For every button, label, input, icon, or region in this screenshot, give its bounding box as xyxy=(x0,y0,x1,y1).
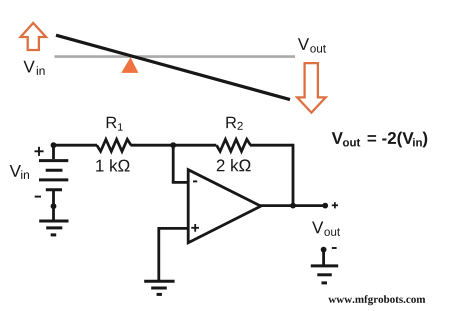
node: output/feedback junction xyxy=(290,203,296,209)
ground (battery) xyxy=(39,220,68,223)
wire: battery + to R1 xyxy=(54,144,98,147)
label R2 xyxy=(226,117,236,128)
resistor R1 xyxy=(97,139,131,151)
battery + sign xyxy=(35,150,44,152)
resistor R2 xyxy=(217,139,251,151)
node: output terminal xyxy=(322,203,328,209)
seesaw base line xyxy=(55,55,296,58)
wire: node A down to inverting input xyxy=(172,145,175,182)
label Vin (seesaw) xyxy=(24,61,35,73)
battery - sign xyxy=(35,196,41,198)
value 1 kOhm xyxy=(96,159,129,171)
ground (op-amp + input) xyxy=(144,280,174,283)
output + sign xyxy=(332,204,338,206)
up arrow (input swings up) xyxy=(21,23,47,50)
ground (output) xyxy=(311,264,338,267)
battery V1 plates xyxy=(39,159,68,162)
wire: non-inverting input to ground xyxy=(157,227,160,281)
battery V1 top lead xyxy=(52,143,55,159)
wire: battery - to ground xyxy=(52,191,55,220)
op-amp inverting pin mark xyxy=(193,180,197,182)
seesaw beam xyxy=(56,35,290,99)
node A (inverting input junction) xyxy=(170,142,176,148)
pivot triangle xyxy=(121,57,138,73)
wire: R1 to R2 through node A xyxy=(131,144,217,147)
node: ground reference terminal xyxy=(321,247,327,253)
wire: R2 to feedback corner xyxy=(250,144,293,147)
value 2 kOhm xyxy=(217,159,251,171)
label R1 xyxy=(107,117,117,128)
output - sign xyxy=(332,247,337,249)
wire: feedback down to output node xyxy=(292,144,295,206)
node: battery negative junction xyxy=(51,203,57,209)
op-amp U1 xyxy=(188,170,261,243)
op-amp non-inverting pin mark xyxy=(191,227,199,229)
watermark www.mfgrobots.com xyxy=(328,295,425,305)
label Vout (output) xyxy=(312,222,323,234)
node: battery positive junction xyxy=(51,142,57,148)
wire: output ground stub xyxy=(322,250,325,266)
down arrow (output swings down) xyxy=(297,63,325,113)
label Vout (seesaw) xyxy=(298,38,309,50)
wire: non-inverting input xyxy=(159,227,189,230)
equation Vout = -2(Vin) xyxy=(332,132,343,144)
label Vin (battery) xyxy=(10,165,21,177)
wire: op-amp output xyxy=(259,204,325,207)
